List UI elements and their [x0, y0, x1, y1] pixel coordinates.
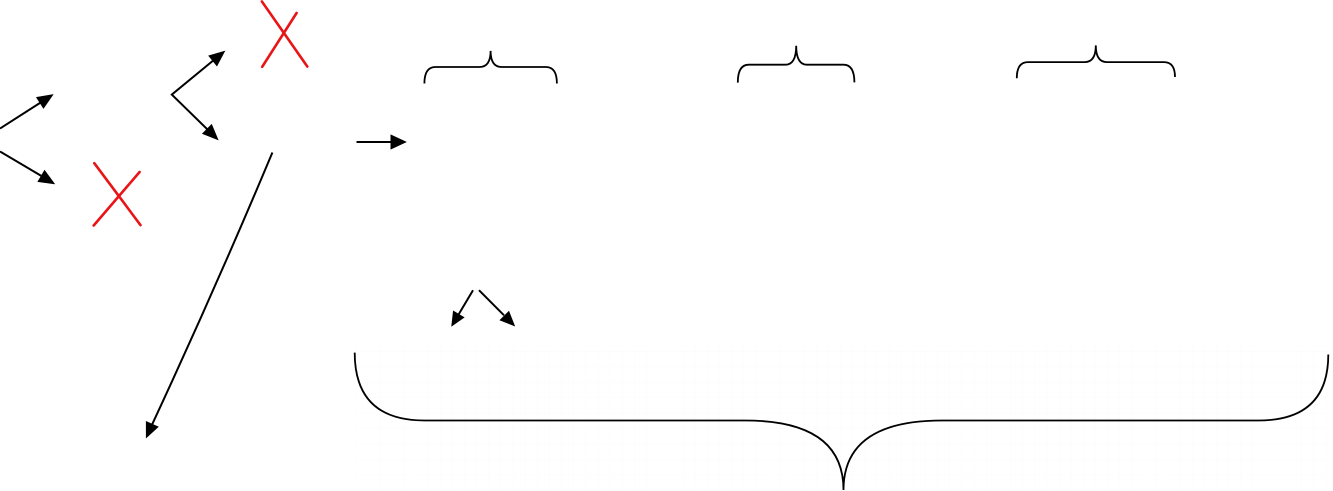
overbrace 1 — [424, 51, 557, 84]
long diagonal arrow — [147, 153, 273, 437]
overbrace 3 — [1017, 45, 1175, 78]
red cross X upper — [262, 2, 307, 67]
underbrace big — [355, 353, 1329, 490]
small fork arrow left — [453, 290, 474, 325]
wire arrow upper-left rising — [0, 96, 52, 129]
small fork arrow right — [479, 290, 513, 325]
horizontal arrow — [357, 136, 405, 148]
red cross X lower — [94, 163, 141, 225]
faint grid paper band — [355, 345, 1333, 491]
branch vertex arrows (angle bracket) — [172, 52, 224, 138]
wire arrow lower-left falling — [0, 152, 53, 184]
overbrace 2 — [738, 46, 855, 83]
